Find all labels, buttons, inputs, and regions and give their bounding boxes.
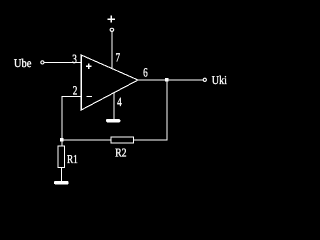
ground at R1 [54,181,69,184]
wire pin3 input [44,61,81,63]
wire pin4 [113,93,115,119]
wire pin2 feedback [62,97,81,146]
svg-text:R2: R2 [115,145,127,159]
op-amp U1 triangle [81,55,138,110]
svg-text:7: 7 [116,50,121,64]
junction feedback node [60,138,63,141]
ground at pin4 [106,119,120,122]
wire R1 to ground [60,167,62,181]
svg-text:2: 2 [73,84,78,98]
svg-text:Uki: Uki [212,73,228,87]
node Uki output terminal [203,78,206,81]
svg-text:Ube: Ube [14,56,32,70]
svg-text:4: 4 [117,95,122,109]
op-amp non-inverting input plus symbol [86,64,92,70]
node positive supply terminal [110,28,114,31]
wire output pin6 [138,79,203,81]
wire feedback vertical from output [134,80,168,140]
svg-text:3: 3 [72,52,77,66]
wire pin7 supply [111,31,113,68]
positive supply plus symbol [107,16,115,23]
wire R2 to junction [62,139,111,141]
resistor R2 [111,137,134,143]
resistor R1 [58,146,64,167]
node Ube input terminal [41,61,44,64]
svg-text:R1: R1 [67,152,78,166]
svg-text:6: 6 [143,66,148,80]
junction output node [165,78,168,81]
op-amp inverting input minus symbol [87,95,92,97]
